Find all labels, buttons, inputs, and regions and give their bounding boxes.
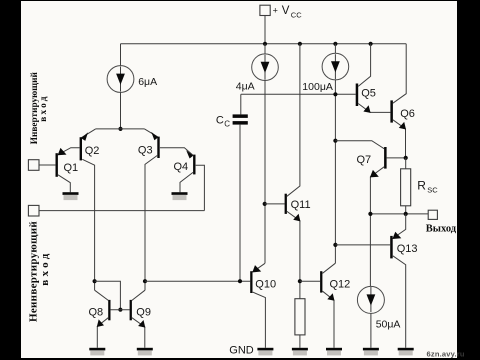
arrow Q3 emitter: [151, 132, 158, 140]
transistor Q2: [80, 137, 82, 160]
node Q7-base Rsc junction: [404, 156, 408, 160]
wire R1 to ground: [299, 335, 301, 348]
svg-text:100μA: 100μA: [302, 81, 333, 93]
transistor Q1: [56, 153, 58, 177]
arrow Q8 emitter: [97, 319, 104, 327]
svg-text:CC: CC: [291, 11, 302, 20]
wire Q2 collector: [82, 159, 94, 290]
wire Q5 base line: [241, 93, 356, 95]
transistor Q8: [108, 300, 110, 320]
resistor Rsc: [401, 169, 411, 206]
wire Q5 collector to bus: [358, 44, 370, 87]
node Q2-collector Q8 junction: [93, 279, 97, 283]
wire Q7 emitter down: [370, 167, 384, 287]
label inverting input (rotated): [29, 72, 49, 145]
svg-text:SC: SC: [427, 185, 438, 194]
arrow Q12 emitter: [327, 293, 334, 301]
svg-text:4μA: 4μA: [236, 80, 255, 92]
svg-text:C: C: [224, 119, 230, 128]
ground Q12: [326, 348, 342, 356]
svg-text:вход: вход: [39, 250, 51, 285]
transistor Q12: [320, 271, 322, 292]
transistor Q4: [193, 155, 195, 175]
wire Q4 collector to ground: [180, 172, 193, 192]
node bus-100uA junction: [333, 42, 337, 46]
arrow Q13 emitter: [392, 232, 401, 239]
ground Q13: [398, 348, 414, 356]
transistor Q9: [130, 300, 132, 320]
svg-text:+: +: [273, 6, 278, 16]
wire Q11 emitter down: [287, 211, 300, 298]
ground Q1: [63, 192, 79, 200]
capacitor Cc top link: [240, 94, 242, 114]
current source 50uA: [357, 286, 384, 313]
wire Q3 emitter lead: [145, 129, 158, 137]
resistor R1 (Q11 emitter): [295, 299, 305, 335]
wire Q3 base to Q4 emitter: [160, 148, 193, 155]
wire Q1 emitter to Q2 base: [58, 148, 80, 155]
terminal +Vcc square: [260, 5, 270, 15]
wire Q13 emitter from output node: [393, 214, 406, 239]
wire Q8 collector lead: [95, 290, 109, 300]
svg-text:Q9: Q9: [136, 306, 151, 318]
wire Q1 base: [39, 164, 55, 166]
terminal non-inverting input square: [28, 205, 39, 216]
wire Q13 collector to ground: [393, 256, 406, 348]
wire Vcc drop: [264, 16, 266, 44]
wire Q2 emitter lead: [82, 129, 96, 138]
wire tail horizontal: [96, 128, 145, 130]
current source 6uA: [107, 66, 134, 93]
arrow Q5 emitter: [363, 105, 370, 113]
svg-text:Q2: Q2: [85, 145, 100, 157]
svg-text:вход: вход: [39, 94, 49, 122]
svg-text:Инвертирующий: Инвертирующий: [29, 72, 40, 145]
svg-text:Q4: Q4: [174, 161, 189, 173]
arrow Q10 emitter: [252, 265, 261, 272]
capacitor Cc: [233, 114, 248, 124]
wire Q8 diode link: [95, 281, 121, 310]
current source 4uA: [252, 44, 279, 81]
node bus-4uA junction: [263, 42, 267, 46]
node Q13 base junction: [333, 243, 337, 247]
svg-text:6μA: 6μA: [138, 76, 157, 88]
svg-text:V: V: [282, 5, 290, 17]
svg-text:Неинвертирующий: Неинвертирующий: [28, 221, 40, 322]
node 100uA Q5-base junction: [333, 92, 337, 96]
terminal output square: [428, 210, 437, 219]
node input pair tail: [118, 127, 122, 131]
wire Q4 base down to input line: [196, 165, 205, 210]
svg-text:50μA: 50μA: [376, 319, 401, 331]
svg-text:Q12: Q12: [330, 278, 351, 290]
wire Q11 base: [265, 203, 285, 205]
svg-text:Q8: Q8: [89, 306, 104, 318]
node Cc Q10-base junction: [238, 279, 242, 283]
wire mirror output to Q10 base: [145, 280, 250, 282]
wire 6uA to input tail: [120, 92, 122, 129]
svg-text:Q10: Q10: [255, 279, 276, 291]
node Q9-collector junction: [143, 279, 147, 283]
ground Q9: [137, 348, 153, 356]
svg-text:Выход: Выход: [426, 224, 457, 235]
wire Q8 emitter to ground: [97, 318, 108, 348]
arrow Q4 emitter: [186, 150, 193, 158]
wire Q9 emitter to ground: [132, 318, 145, 348]
node Q12 base junction: [298, 279, 302, 283]
node Q11 base junction: [263, 202, 267, 206]
transistor Q7: [384, 147, 387, 169]
svg-text:GND: GND: [229, 345, 254, 357]
wire Rsc top: [405, 158, 407, 169]
wire Q5 emitter to Q6 base: [358, 104, 390, 113]
transistor Q13: [390, 236, 393, 259]
svg-text:6zn.avy.ru: 6zn.avy.ru: [427, 350, 465, 359]
ground Q4: [172, 192, 188, 200]
transistor Q10: [250, 271, 252, 293]
arrow Q7 emitter: [370, 170, 379, 178]
wire Cc bottom to Q10 base node: [239, 125, 241, 282]
arrow Q11 emitter: [293, 214, 300, 222]
wire non-inverting input line: [39, 210, 204, 212]
ground 50uA: [363, 348, 379, 356]
transistor Q6: [390, 100, 393, 122]
wire Q12 emitter to ground: [323, 291, 335, 348]
svg-text:Q5: Q5: [361, 88, 376, 100]
wire Q12 base: [300, 280, 320, 282]
wire Q10 emitter lead: [253, 263, 265, 272]
transistor Q11: [285, 194, 287, 214]
label +Vcc: [273, 5, 303, 20]
svg-text:Q7: Q7: [357, 154, 372, 166]
transistor Q3: [157, 137, 159, 158]
node Q7 collector junction: [333, 139, 337, 143]
node Q8 Q9 base tie: [118, 308, 122, 312]
ground Q10: [257, 348, 273, 356]
wire 4uA down to Q10 emitter: [264, 81, 266, 264]
node output Rsc junction: [404, 212, 408, 216]
node output Q7-emitter junction: [368, 212, 372, 216]
wire Q3 collector: [145, 156, 157, 291]
wire Q7 base: [387, 157, 406, 159]
wire Q1 collector to ground: [58, 175, 70, 192]
svg-text:C: C: [216, 115, 224, 127]
label non-inverting input (rotated): [28, 221, 51, 322]
wire Q12 collector lead: [323, 263, 336, 273]
wire Q11 collector to bus: [287, 44, 300, 197]
wire Q9 collector lead: [132, 290, 145, 300]
wire Q8 Q9 base link: [111, 309, 130, 311]
wire Q7 collector: [335, 141, 384, 149]
terminal inverting input square: [28, 160, 39, 171]
wire 100uA down rail: [334, 80, 336, 263]
wire Q6 collector to bus corner: [393, 44, 406, 103]
wire output line: [370, 213, 428, 215]
wire top supply bus: [121, 43, 407, 45]
svg-text:Q6: Q6: [400, 108, 415, 120]
label Cc: [216, 115, 230, 129]
node bus-Q11 junction: [298, 42, 302, 46]
wire Rsc bottom to output node: [405, 206, 407, 214]
label Rsc: [417, 178, 438, 194]
arrow Q9 emitter: [138, 320, 145, 328]
wire Q13 base line: [335, 244, 390, 246]
svg-text:Q3: Q3: [138, 144, 153, 156]
svg-text:Q1: Q1: [64, 162, 79, 174]
ground R1: [292, 348, 308, 356]
wire Q6 emitter down: [393, 120, 406, 158]
arrow Q1 emitter: [58, 148, 67, 155]
svg-text:Q13: Q13: [397, 243, 418, 255]
transistor Q5: [356, 84, 359, 107]
svg-text:R: R: [417, 178, 426, 192]
arrow Q6 emitter: [399, 122, 406, 130]
arrow Q2 emitter: [81, 132, 88, 141]
wire bus to 6uA source: [120, 44, 122, 66]
ground Q8: [89, 348, 105, 356]
wire 50uA to ground: [370, 313, 372, 347]
node bus-Q5 junction: [369, 42, 373, 46]
svg-text:Q11: Q11: [291, 199, 311, 211]
current source 100uA: [322, 44, 349, 80]
wire Q10 collector to ground: [253, 292, 266, 348]
